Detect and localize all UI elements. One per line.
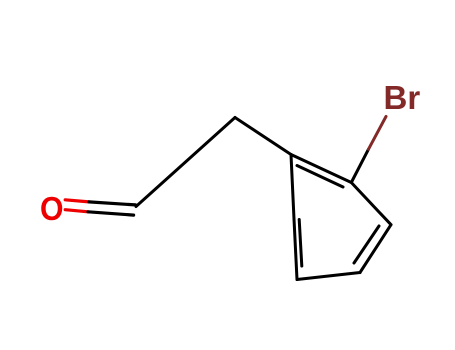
benzene ring edge P4-P5 bottom — [297, 273, 360, 280]
benzene ring edge P6-P1 — [291, 155, 294, 220]
chain bond apex to ring ipso P1 — [235, 118, 291, 155]
carbonyl C=O double bond upper line black half — [89, 202, 135, 205]
benzene ring edge P3-P4 — [360, 225, 391, 273]
svg-text:Br: Br — [384, 79, 421, 116]
svg-text:O: O — [40, 190, 64, 227]
carbonyl C=O double bond lower line red half — [65, 210, 88, 212]
C-Br bond black half from ring vertex P2 — [351, 149, 368, 182]
aromatic inner line along P1-P2 — [297, 166, 343, 188]
chain bond C1 to apex — [136, 118, 235, 207]
carbonyl C=O double bond upper line red half — [65, 200, 89, 202]
benzene ring edge P2-P3 — [351, 183, 391, 225]
C-Br bond maroon half toward Br — [369, 117, 387, 150]
aromatic inner line along P5-P6 — [299, 220, 302, 267]
benzene ring edge P1-P2 top — [291, 155, 351, 183]
aromatic inner line along P3-P4 — [354, 226, 379, 263]
carbonyl C=O double bond lower line black half — [88, 212, 134, 215]
benzene ring edge P5-P6 — [294, 219, 297, 280]
